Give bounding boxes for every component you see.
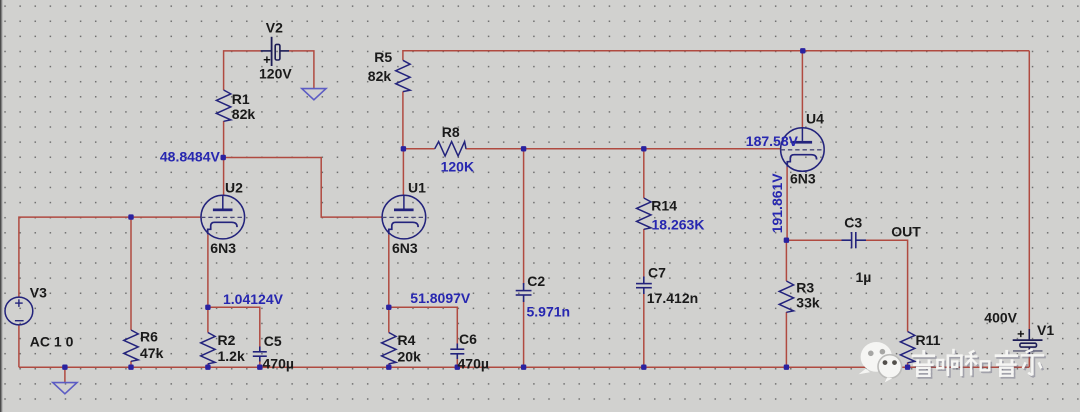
svg-text:18.263K: 18.263K — [652, 216, 705, 232]
svg-text:C7: C7 — [648, 265, 666, 281]
wire C6 bottom — [456, 358, 458, 367]
wire V3 bottom to rail — [18, 325, 20, 367]
wire R11 bottom — [907, 363, 909, 368]
voltage source V3 — [5, 297, 33, 325]
bottom ground rail — [19, 366, 1029, 368]
wire C3 right to R11 top — [865, 240, 908, 331]
left page border — [0, 0, 1, 412]
resistor R11 — [900, 332, 914, 363]
svg-text:6N3: 6N3 — [392, 240, 418, 256]
svg-text:R4: R4 — [398, 332, 416, 348]
svg-text:51.8097V: 51.8097V — [410, 290, 471, 306]
resistor R1 — [216, 90, 230, 121]
svg-text:C5: C5 — [264, 333, 282, 349]
svg-text:6N3: 6N3 — [790, 170, 816, 186]
battery V2 — [261, 37, 289, 66]
wire U4 cathode to node — [786, 167, 788, 241]
svg-text:R11: R11 — [916, 332, 941, 348]
watermark char YIN1 — [912, 350, 937, 379]
battery V1 — [1013, 329, 1043, 356]
capacitor C3 (horizontal) — [842, 232, 867, 248]
wire junction to R8 left — [403, 148, 434, 150]
watermark dark line above LE char — [1013, 350, 1043, 352]
svg-text:1µ: 1µ — [856, 269, 872, 285]
ground symbol (V2 negative) — [302, 89, 326, 100]
resistor R2 — [201, 333, 215, 364]
wire R6 top — [130, 217, 132, 330]
svg-text:6N3: 6N3 — [210, 240, 236, 256]
ground symbol (bottom rail) — [53, 383, 77, 394]
svg-text:400V: 400V — [984, 309, 1017, 325]
wire C5 bottom — [259, 360, 261, 367]
svg-text:R8: R8 — [442, 124, 460, 140]
svg-text:U1: U1 — [408, 179, 426, 195]
wire V3 top to U2 grid — [19, 217, 201, 297]
wire C2 top — [523, 149, 525, 285]
svg-text:48.8484V: 48.8484V — [160, 148, 221, 164]
svg-text:82k: 82k — [232, 106, 256, 122]
battery V2 plus sign — [264, 56, 271, 63]
watermark char HE — [965, 351, 991, 378]
watermark char LE — [1021, 349, 1046, 377]
watermark wechat bubble small — [878, 355, 902, 383]
svg-text:C3: C3 — [844, 215, 862, 231]
wire R6 bottom — [130, 361, 132, 367]
wire U1 cathode to node 51.8097V — [388, 235, 390, 308]
wire V1 bottom — [1028, 347, 1030, 367]
wire R14 bottom to C7 — [643, 229, 645, 278]
svg-text:R14: R14 — [651, 198, 677, 214]
svg-text:AC 1 0: AC 1 0 — [30, 333, 74, 349]
svg-text:V2: V2 — [266, 19, 283, 35]
wire V2 right lead to ground stem — [289, 51, 314, 88]
wire C2 bottom — [523, 300, 525, 367]
svg-text:C6: C6 — [459, 331, 477, 347]
wire ground stem — [64, 367, 66, 382]
capacitor C5 — [253, 347, 267, 362]
wire R5 bottom to U1 plate junction — [402, 92, 404, 149]
resistor R4 — [382, 333, 396, 364]
svg-text:470µ: 470µ — [458, 355, 489, 371]
svg-text:OUT: OUT — [891, 224, 921, 240]
wire R8 right to U4 grid — [466, 148, 781, 150]
capacitor C2 — [516, 283, 532, 302]
wire U2 cathode to node 1.04124V — [207, 235, 209, 308]
wire R4 leads — [388, 307, 390, 332]
resistor R6 — [124, 330, 138, 361]
watermark char XIANG — [936, 349, 964, 378]
svg-text:82k: 82k — [368, 68, 392, 84]
svg-text:R5: R5 — [374, 49, 392, 65]
capacitor C6 — [450, 344, 464, 360]
wire right rail to V1 battery — [1028, 51, 1030, 329]
wire R5 top rail — [403, 51, 1029, 61]
triode U2 — [201, 195, 245, 239]
svg-text:C2: C2 — [527, 273, 545, 289]
svg-text:V3: V3 — [30, 284, 47, 300]
svg-text:1.04124V: 1.04124V — [223, 291, 284, 307]
watermark wechat bubble large — [859, 342, 892, 374]
wire R3 bottom — [785, 312, 787, 367]
wire node to C3 left — [786, 239, 842, 241]
svg-text:R2: R2 — [218, 332, 236, 348]
wire U1 plate — [402, 149, 404, 196]
wire R14 top — [643, 149, 645, 198]
svg-text:33k: 33k — [796, 295, 820, 311]
svg-text:191.861V: 191.861V — [769, 173, 785, 234]
triode U4 — [781, 128, 825, 172]
battery V1 plus sign — [1018, 331, 1024, 337]
watermark char YIN2 — [995, 350, 1020, 379]
svg-text:120K: 120K — [441, 159, 474, 175]
svg-text:U4: U4 — [806, 110, 824, 126]
wire R3 top — [785, 240, 787, 281]
resistor R14 — [637, 198, 651, 229]
resistor R5 — [396, 60, 410, 91]
svg-text:R3: R3 — [796, 279, 814, 295]
svg-text:120V: 120V — [259, 66, 292, 82]
wire R1 bottom through node 48.8484V to U2 plate — [223, 121, 225, 195]
capacitor C7 — [636, 277, 652, 295]
wire C7 bottom — [643, 293, 645, 368]
wire R2 leads — [207, 307, 209, 332]
svg-text:1.2k: 1.2k — [218, 348, 245, 364]
svg-text:R6: R6 — [140, 329, 158, 345]
svg-text:20k: 20k — [398, 349, 422, 365]
svg-text:470µ: 470µ — [263, 355, 294, 371]
wire node 51.8097V to C6 — [389, 307, 458, 344]
wire node 1.04124V to C5 — [208, 307, 260, 347]
svg-text:V1: V1 — [1037, 322, 1054, 338]
svg-text:187.58V: 187.58V — [746, 133, 799, 149]
wire V2 left lead to R1 top — [224, 51, 261, 90]
svg-text:5.971n: 5.971n — [527, 303, 571, 319]
svg-text:R1: R1 — [232, 91, 250, 107]
svg-text:U2: U2 — [225, 179, 243, 195]
resistor R8 (horizontal) — [435, 142, 466, 156]
wire node 48.8484V to U1 grid — [224, 158, 382, 218]
resistor R3 — [779, 281, 793, 312]
svg-text:47k: 47k — [140, 345, 164, 361]
svg-text:17.412n: 17.412n — [647, 290, 698, 306]
triode U1 — [382, 195, 426, 239]
wire U4 plate from top rail — [801, 51, 803, 128]
